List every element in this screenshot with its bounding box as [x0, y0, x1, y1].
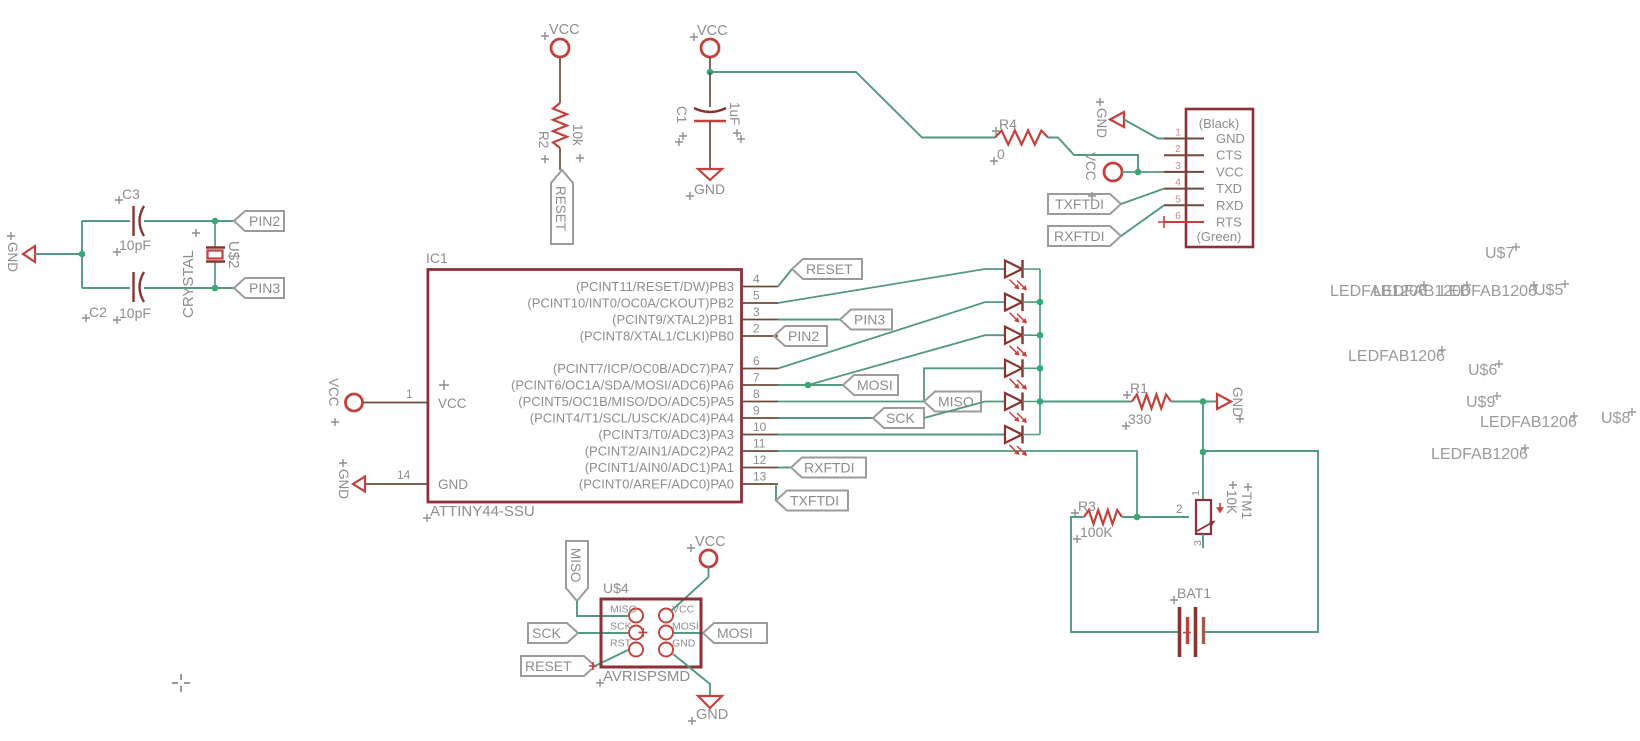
wire RESET — [778, 269, 792, 287]
pin 5 PB2 — [742, 302, 779, 304]
node junction — [1037, 332, 1044, 339]
svg-text:GND: GND — [1216, 131, 1245, 146]
wire — [144, 287, 215, 289]
svg-text:3: 3 — [1175, 160, 1181, 172]
wire — [1122, 516, 1189, 518]
svg-text:R1: R1 — [1130, 380, 1148, 396]
pin 14 GND — [365, 483, 428, 485]
svg-text:RESET: RESET — [553, 186, 568, 231]
svg-text:0: 0 — [997, 146, 1005, 162]
capacitor C3 — [132, 206, 134, 236]
svg-text:MOSI: MOSI — [717, 625, 753, 641]
node junction — [79, 251, 86, 258]
svg-text:2: 2 — [753, 322, 760, 336]
svg-text:BAT1: BAT1 — [1177, 585, 1211, 601]
wire PA2 long — [778, 451, 1137, 517]
svg-text:U$8: U$8 — [1601, 410, 1630, 427]
wire — [673, 654, 710, 696]
label SCK flag — [528, 623, 578, 643]
svg-text:GND: GND — [5, 242, 20, 272]
wire — [35, 253, 82, 255]
svg-text:5: 5 — [1175, 193, 1181, 205]
pin MISO pad — [629, 609, 643, 623]
svg-text:MOSI: MOSI — [857, 377, 893, 393]
wire — [578, 632, 628, 634]
wire — [577, 601, 628, 616]
svg-text:LEDFAB1206: LEDFAB1206 — [1431, 446, 1528, 463]
node junction — [1134, 514, 1141, 521]
svg-text:9: 9 — [753, 404, 760, 418]
svg-text:RST: RST — [610, 638, 632, 650]
svg-text:2: 2 — [1175, 143, 1181, 155]
node junction — [1037, 398, 1044, 405]
resistor R4 0 — [995, 131, 1048, 145]
wire — [1040, 401, 1132, 403]
svg-text:(PCINT1/AIN0/ADC1)PA1: (PCINT1/AIN0/ADC1)PA1 — [585, 460, 734, 475]
wire — [1023, 434, 1041, 436]
wire — [1122, 171, 1186, 173]
svg-text:TXD: TXD — [1216, 181, 1242, 196]
wire battery - side — [1071, 517, 1178, 632]
svg-text:(PCINT8/XTAL1/CLKI)PB0: (PCINT8/XTAL1/CLKI)PB0 — [580, 329, 734, 344]
wire — [1023, 268, 1041, 270]
svg-text:U$6: U$6 — [1468, 362, 1497, 379]
svg-text:VCC: VCC — [1083, 152, 1098, 181]
label PIN2 — [774, 326, 827, 346]
svg-text:10K: 10K — [1224, 490, 1239, 514]
svg-text:C1: C1 — [674, 106, 689, 123]
svg-text:100K: 100K — [1080, 524, 1113, 540]
svg-text:RXD: RXD — [1216, 198, 1243, 213]
label MISO — [924, 392, 981, 412]
label RESET — [551, 170, 573, 244]
wire to LED1 — [778, 269, 1004, 303]
svg-text:R2: R2 — [536, 131, 551, 148]
label TXFTDI — [776, 491, 848, 511]
svg-text:(PCINT5/OC1B/MISO/DO/ADC5)PA5: (PCINT5/OC1B/MISO/DO/ADC5)PA5 — [518, 394, 734, 409]
pin 1 GND — [1164, 138, 1204, 140]
wire — [1023, 367, 1041, 369]
svg-text:(Black): (Black) — [1199, 116, 1239, 131]
pin 10 PA3 — [742, 434, 779, 436]
label RXFTDI — [791, 458, 866, 478]
LED D6 — [1005, 426, 1022, 443]
svg-text:LEDFAB1206: LEDFAB1206 — [1348, 348, 1445, 365]
pin RST pad — [629, 643, 643, 657]
resistor R1 330 — [1132, 395, 1171, 409]
wire LED bus — [1039, 269, 1041, 435]
svg-text:6: 6 — [1175, 210, 1181, 222]
svg-text:RXFTDI: RXFTDI — [1054, 228, 1105, 244]
svg-text:5: 5 — [753, 289, 760, 303]
label PIN2 — [234, 211, 284, 231]
svg-text:MISO: MISO — [938, 394, 974, 410]
svg-text:GND: GND — [1230, 387, 1245, 417]
wire — [1124, 120, 1186, 139]
wire MISO to LED4 — [778, 368, 1004, 401]
resistor R2 10k — [553, 103, 567, 148]
svg-text:TXFTDI: TXFTDI — [790, 493, 839, 509]
node junction — [1037, 365, 1044, 372]
svg-text:VCC: VCC — [697, 23, 728, 39]
wire MOSI — [778, 384, 843, 386]
pin 2 PB0 — [742, 335, 779, 337]
wire — [82, 220, 130, 222]
svg-text:(PCINT11/RESET/DW)PB3: (PCINT11/RESET/DW)PB3 — [576, 279, 734, 294]
svg-text:10: 10 — [753, 420, 767, 434]
svg-text:TXFTDI: TXFTDI — [1055, 196, 1104, 212]
node PIN3 junction — [212, 285, 219, 292]
svg-text:(PCINT3/T0/ADC3)PA3: (PCINT3/T0/ADC3)PA3 — [598, 427, 734, 442]
svg-text:13: 13 — [753, 470, 767, 484]
wire — [1202, 402, 1204, 453]
svg-text:U$2: U$2 — [225, 241, 242, 269]
wire loop to battery + — [1203, 451, 1318, 632]
wire — [144, 220, 215, 222]
resistor R3 100K — [1084, 510, 1122, 524]
svg-text:PIN2: PIN2 — [788, 328, 819, 344]
wire to LED2 — [778, 302, 1004, 368]
pin 4 TXD — [1164, 188, 1204, 190]
svg-text:1: 1 — [1175, 127, 1181, 139]
capacitor C1 1uF — [694, 108, 726, 112]
node junction — [1200, 398, 1207, 405]
svg-text:VCC: VCC — [1216, 164, 1243, 179]
pin 6 RTS — [1164, 221, 1204, 223]
svg-text:VCC: VCC — [326, 378, 341, 407]
pin 8 PA5 — [742, 401, 779, 403]
label TXFTDI — [1048, 194, 1121, 214]
wire — [1171, 401, 1217, 403]
svg-text:1uF: 1uF — [727, 102, 742, 125]
wire — [82, 287, 130, 289]
svg-text:MISO: MISO — [568, 548, 583, 583]
node junction — [1037, 299, 1044, 306]
svg-text:AVRISPSMD: AVRISPSMD — [603, 668, 690, 685]
svg-text:SCK: SCK — [610, 621, 632, 633]
svg-text:(Green): (Green) — [1197, 229, 1242, 244]
wire — [671, 567, 709, 611]
wire — [1121, 205, 1164, 236]
node junction — [707, 69, 714, 76]
svg-text:11: 11 — [753, 437, 766, 451]
svg-text:PIN3: PIN3 — [854, 312, 885, 328]
svg-text:10pF: 10pF — [119, 305, 151, 321]
wire — [1202, 534, 1204, 548]
svg-text:TM1: TM1 — [1239, 492, 1254, 519]
svg-text:LEDFAB1206: LEDFAB1206 — [1440, 283, 1537, 300]
wire — [1048, 138, 1138, 173]
svg-text:(PCINT6/OC1A/SDA/MOSI/ADC6)PA6: (PCINT6/OC1A/SDA/MOSI/ADC6)PA6 — [511, 378, 734, 393]
LED D2 — [1005, 294, 1022, 311]
wire — [1023, 301, 1041, 303]
svg-text:8: 8 — [753, 387, 760, 401]
wire to LED6 — [778, 434, 1004, 436]
pin 12 PA1 — [742, 467, 779, 469]
svg-text:C2: C2 — [89, 304, 107, 320]
label PIN3 — [234, 278, 284, 298]
label RESET — [792, 259, 862, 279]
svg-text:RXFTDI: RXFTDI — [804, 460, 855, 476]
svg-text:1: 1 — [1190, 490, 1202, 496]
wire SCK to LED5 — [778, 417, 873, 419]
svg-text:IC1: IC1 — [426, 250, 448, 266]
connector U$4 AVRISPSMD — [601, 599, 701, 667]
svg-text:U$7: U$7 — [1485, 245, 1514, 262]
svg-text:VCC: VCC — [549, 22, 580, 38]
pin 9 PA4 — [742, 417, 779, 419]
wire — [559, 148, 561, 170]
pin 5 RXD — [1164, 204, 1204, 206]
node junction — [1200, 449, 1207, 456]
svg-text:MISO: MISO — [610, 604, 637, 616]
svg-text:RTS: RTS — [1216, 215, 1242, 230]
svg-text:(PCINT0/AREF/ADC0)PA0: (PCINT0/AREF/ADC0)PA0 — [579, 477, 734, 492]
svg-text:PIN2: PIN2 — [249, 213, 280, 229]
LED D1 — [1005, 261, 1022, 278]
svg-text:C3: C3 — [122, 186, 140, 202]
pin VCC pad — [659, 609, 673, 623]
svg-text:SCK: SCK — [886, 410, 915, 426]
wire — [1202, 452, 1204, 500]
svg-text:LEDFAB1206: LEDFAB1206 — [1480, 414, 1577, 431]
ground — [1217, 394, 1231, 409]
label RXFTDI — [1048, 226, 1121, 246]
svg-text:GND: GND — [672, 638, 696, 650]
svg-text:10k: 10k — [570, 124, 585, 146]
svg-text:PIN3: PIN3 — [249, 280, 280, 296]
label SCK — [873, 408, 924, 428]
svg-text:U$5: U$5 — [1534, 282, 1563, 299]
svg-text:12: 12 — [753, 453, 767, 467]
pin 4 PB3 — [742, 286, 779, 288]
cursor crosshair — [172, 674, 190, 692]
svg-text:GND: GND — [336, 469, 351, 499]
svg-text:2: 2 — [1176, 502, 1183, 516]
LED D4 — [1005, 360, 1022, 377]
pin GND pad — [659, 643, 673, 657]
wire TXFTDI — [775, 484, 777, 501]
node junction — [805, 382, 812, 389]
pin 3 PB1 — [742, 319, 779, 321]
crystal U$2 — [214, 221, 216, 247]
pin 3 VCC — [1164, 171, 1204, 173]
node junction — [1135, 169, 1142, 176]
LED D3 — [1005, 327, 1022, 344]
svg-text:VCC: VCC — [695, 534, 726, 550]
pin MOSI pad — [659, 626, 673, 640]
wire — [1023, 334, 1041, 336]
pin SCK pad — [629, 626, 643, 640]
wire — [674, 632, 703, 634]
wire — [709, 121, 711, 168]
svg-text:(PCINT4/T1/SCL/USCK/ADC4)PA4: (PCINT4/T1/SCL/USCK/ADC4)PA4 — [530, 411, 734, 426]
label MOSI flag — [703, 623, 767, 643]
svg-text:(PCINT7/ICP/OC0B/ADC7)PA7: (PCINT7/ICP/OC0B/ADC7)PA7 — [553, 361, 734, 376]
svg-text:GND: GND — [1094, 108, 1109, 138]
pin 7 PA6 — [742, 384, 779, 386]
svg-text:MOSI: MOSI — [672, 621, 699, 633]
ground — [23, 246, 35, 262]
pin 6 PA7 — [742, 368, 779, 370]
svg-text:U$9: U$9 — [1466, 394, 1495, 411]
svg-text:14: 14 — [397, 468, 411, 482]
svg-text:6: 6 — [753, 354, 760, 368]
pin 11 PA2 — [742, 450, 779, 452]
node PIN2 junction — [212, 218, 219, 225]
wire to R4 — [710, 72, 995, 138]
svg-text:R3: R3 — [1078, 498, 1096, 514]
svg-text:VCC: VCC — [672, 604, 695, 616]
wire — [559, 57, 561, 103]
wire PIN3 — [778, 319, 840, 321]
svg-text:(PCINT10/INT0/OC0A/CKOUT)PB2: (PCINT10/INT0/OC0A/CKOUT)PB2 — [527, 296, 734, 311]
label PIN3 — [840, 310, 892, 330]
svg-text:SCK: SCK — [532, 625, 561, 641]
svg-text:VCC: VCC — [438, 396, 467, 411]
label RESET flag — [521, 656, 595, 676]
wire — [595, 650, 628, 666]
LED D5 — [1005, 393, 1022, 410]
pin 13 PA0 — [742, 483, 779, 485]
ground — [698, 169, 722, 180]
pin 1 VCC — [363, 402, 428, 404]
svg-text:(PCINT2/AIN1/ADC2)PA2: (PCINT2/AIN1/ADC2)PA2 — [585, 444, 734, 459]
wire — [709, 72, 711, 107]
pin 2 CTS — [1164, 154, 1204, 156]
svg-text:GND: GND — [696, 707, 728, 723]
svg-text:4: 4 — [753, 272, 760, 286]
svg-text:1: 1 — [406, 387, 413, 401]
wire to LED3 — [808, 335, 1004, 385]
svg-text:U$4: U$4 — [603, 580, 629, 596]
wire — [1121, 189, 1164, 204]
svg-text:4: 4 — [1175, 177, 1181, 189]
svg-text:3: 3 — [753, 305, 760, 319]
wire RXFTDI — [778, 467, 791, 469]
wire — [1023, 401, 1041, 403]
op-amp IC1 ATTINY44-SSU box — [428, 270, 742, 503]
svg-text:CRYSTAL: CRYSTAL — [180, 250, 197, 318]
capacitor C2 — [132, 272, 134, 302]
svg-text:ATTINY44-SSU: ATTINY44-SSU — [430, 503, 535, 520]
label MOSI — [843, 375, 898, 395]
wire — [215, 220, 234, 222]
svg-text:7: 7 — [753, 371, 760, 385]
svg-text:330: 330 — [1128, 411, 1152, 427]
svg-text:R4: R4 — [999, 116, 1017, 132]
wire — [709, 57, 711, 72]
svg-text:CTS: CTS — [1216, 148, 1242, 163]
svg-text:10pF: 10pF — [119, 237, 151, 253]
label MISO flag — [566, 541, 588, 601]
connector FTDI header — [1186, 109, 1253, 247]
svg-text:(PCINT9/XTAL2)PB1: (PCINT9/XTAL2)PB1 — [612, 312, 734, 327]
ground — [698, 696, 722, 708]
svg-text:RESET: RESET — [525, 658, 572, 674]
wire — [215, 287, 234, 289]
wire — [81, 221, 83, 288]
svg-text:RESET: RESET — [806, 261, 853, 277]
svg-text:GND: GND — [438, 477, 468, 492]
svg-text:GND: GND — [694, 181, 725, 197]
